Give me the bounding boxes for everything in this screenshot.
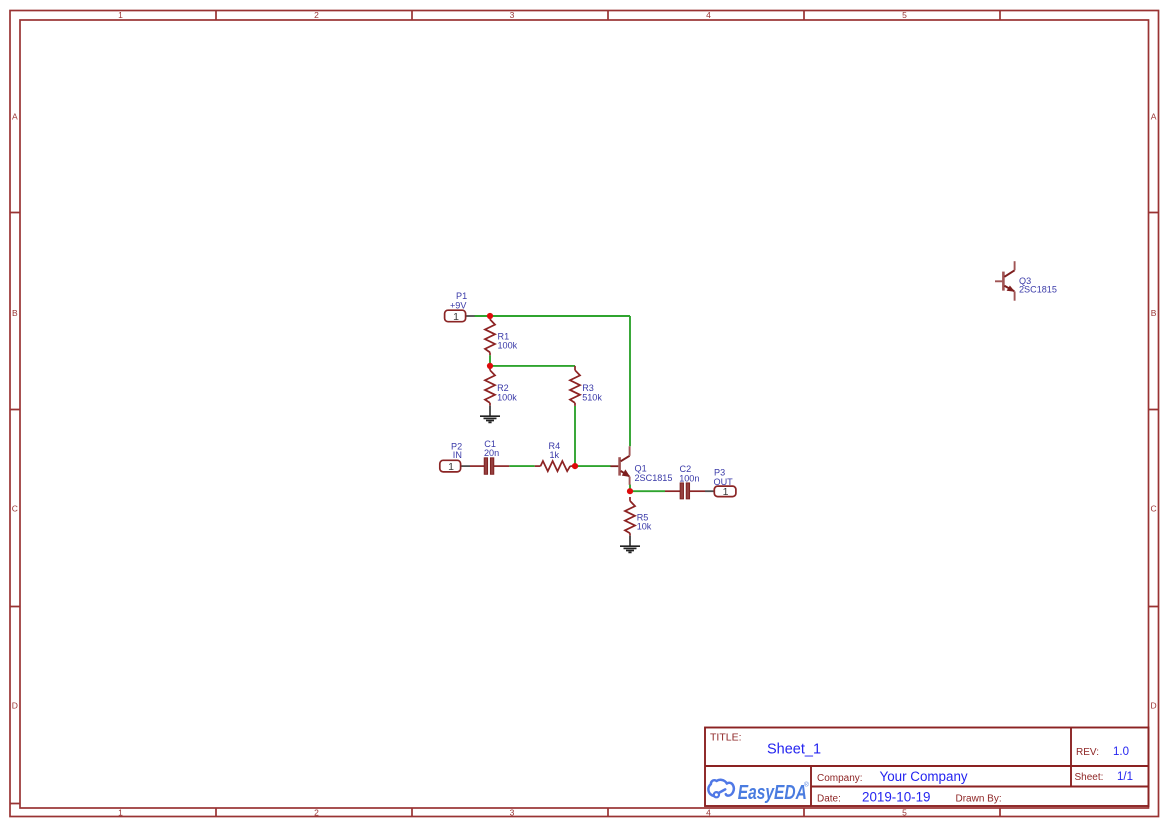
svg-text:B: B xyxy=(12,308,18,318)
svg-text:REV:: REV: xyxy=(1076,747,1099,758)
svg-text:4: 4 xyxy=(706,808,711,818)
svg-text:P3: P3 xyxy=(714,467,725,477)
svg-text:C: C xyxy=(1151,504,1157,514)
svg-text:Drawn By:: Drawn By: xyxy=(956,794,1002,805)
svg-text:Date:: Date: xyxy=(817,794,841,805)
svg-text:100k: 100k xyxy=(498,340,518,350)
svg-text:D: D xyxy=(1151,701,1157,711)
svg-text:2SC1815: 2SC1815 xyxy=(1019,284,1057,294)
svg-text:1.0: 1.0 xyxy=(1113,746,1129,758)
svg-text:B: B xyxy=(1151,308,1157,318)
svg-text:100n: 100n xyxy=(679,473,699,483)
svg-text:510k: 510k xyxy=(582,392,602,402)
svg-text:5: 5 xyxy=(902,808,907,818)
svg-text:Your Company: Your Company xyxy=(880,769,968,784)
svg-text:OUT: OUT xyxy=(714,477,734,487)
svg-text:Sheet_1: Sheet_1 xyxy=(767,742,821,758)
svg-text:1k: 1k xyxy=(550,450,560,460)
svg-text:1: 1 xyxy=(453,311,459,323)
svg-text:1: 1 xyxy=(723,486,729,498)
svg-text:C: C xyxy=(12,504,18,514)
svg-text:1: 1 xyxy=(448,461,454,473)
svg-text:2: 2 xyxy=(314,10,319,20)
svg-text:A: A xyxy=(12,112,18,122)
svg-text:IN: IN xyxy=(453,450,462,460)
svg-text:5: 5 xyxy=(902,10,907,20)
svg-text:1: 1 xyxy=(118,808,123,818)
svg-text:Company:: Company: xyxy=(817,773,863,784)
svg-text:A: A xyxy=(1151,112,1157,122)
svg-text:1/1: 1/1 xyxy=(1117,771,1133,783)
svg-text:4: 4 xyxy=(706,10,711,20)
svg-text:3: 3 xyxy=(510,10,515,20)
svg-text:10k: 10k xyxy=(637,521,652,531)
svg-text:2: 2 xyxy=(314,808,319,818)
svg-text:2SC1815: 2SC1815 xyxy=(635,473,673,483)
svg-text:1: 1 xyxy=(118,10,123,20)
svg-text:2019-10-19: 2019-10-19 xyxy=(862,790,931,805)
svg-text:Q1: Q1 xyxy=(635,463,647,473)
svg-text:TITLE:: TITLE: xyxy=(710,732,742,744)
svg-text:P1: P1 xyxy=(456,291,467,301)
svg-text:100k: 100k xyxy=(497,392,517,402)
svg-text:3: 3 xyxy=(510,808,515,818)
svg-text:EasyEDA: EasyEDA xyxy=(738,782,807,804)
svg-text:D: D xyxy=(12,701,18,711)
svg-text:Sheet:: Sheet: xyxy=(1075,772,1104,783)
svg-text:+9V: +9V xyxy=(450,301,467,311)
svg-text:®: ® xyxy=(804,781,809,789)
svg-text:20n: 20n xyxy=(484,448,499,458)
